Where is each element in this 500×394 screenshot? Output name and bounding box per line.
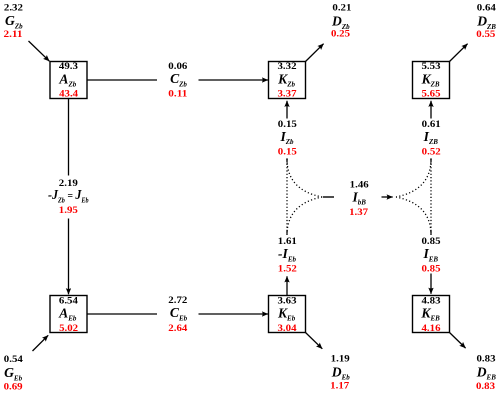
svg-text:3.04: 3.04 xyxy=(278,323,297,334)
svg-text:0.21: 0.21 xyxy=(332,3,351,14)
node D_ZB labels (0.64 / D_ZB / 0.55) xyxy=(476,3,496,41)
wire arrow after I_bB xyxy=(382,196,393,198)
wire arrow G_Eb into A_Eb xyxy=(33,335,49,351)
svg-text:-JZb = JEb: -JZb = JEb xyxy=(48,187,89,204)
wire C_Zb left segment xyxy=(87,79,157,81)
node I_EB labels (0.85 / I_EB / 0.85) xyxy=(422,236,441,275)
svg-text:0.11: 0.11 xyxy=(168,88,187,99)
svg-text:1.95: 1.95 xyxy=(59,205,78,216)
svg-text:2.32: 2.32 xyxy=(4,3,23,14)
wire dash before I_bB xyxy=(323,196,334,198)
svg-text:1.37: 1.37 xyxy=(349,207,368,218)
svg-text:0.55: 0.55 xyxy=(476,29,495,40)
svg-text:4.16: 4.16 xyxy=(422,323,441,334)
wire arrow D_Eb out of K_Eb xyxy=(306,333,323,349)
wire arrow D_ZB out of K_ZB xyxy=(450,44,468,62)
svg-text:0.15: 0.15 xyxy=(278,146,297,157)
box K_Zb xyxy=(269,61,306,100)
node J labels (2.19 / -J_Zb = J_Eb / 1.95) xyxy=(48,178,89,216)
wire C_Zb right segment with arrow into K_Zb xyxy=(199,79,269,81)
left brace bottom dotted curve xyxy=(287,197,322,235)
box A_Zb xyxy=(50,61,87,100)
svg-text:GEb: GEb xyxy=(4,365,22,382)
wire arrow I_EB down into K_EB xyxy=(430,274,432,294)
svg-text:0.25: 0.25 xyxy=(331,29,350,40)
node C_Eb labels (2.72 / C_Eb / 2.64) xyxy=(168,295,187,334)
node C_Zb labels (0.06 / C_Zb / 0.11) xyxy=(168,61,187,100)
svg-text:0.83: 0.83 xyxy=(477,353,496,364)
node D_EB labels (0.83 / D_EB / 0.83) xyxy=(476,353,496,392)
wire C_Eb right segment with arrow into K_Eb xyxy=(199,313,269,315)
node D_Eb labels (1.19 / D_Eb / 1.17) xyxy=(330,353,350,391)
svg-text:1.52: 1.52 xyxy=(278,264,297,275)
svg-text:49.3: 49.3 xyxy=(59,61,78,72)
node -I_Eb labels (1.61 / -I_Eb / 1.52) xyxy=(278,236,297,275)
left brace top dotted curve xyxy=(287,159,322,197)
svg-text:0.83: 0.83 xyxy=(476,381,495,392)
svg-text:IZB: IZB xyxy=(423,129,439,146)
svg-text:43.4: 43.4 xyxy=(59,89,78,100)
node D_Zb labels (0.21 / D_Zb / 0.25) xyxy=(331,3,352,40)
svg-text:CEb: CEb xyxy=(170,305,188,322)
svg-text:0.85: 0.85 xyxy=(422,264,441,275)
svg-text:5.65: 5.65 xyxy=(422,89,441,100)
svg-text:GZb: GZb xyxy=(5,13,23,30)
svg-text:3.32: 3.32 xyxy=(278,61,297,72)
wire arrow D_EB out of K_EB xyxy=(450,333,466,349)
right brace bottom dotted curve xyxy=(396,197,431,235)
node G_Eb labels (0.54 / G_Eb / 0.69) xyxy=(4,354,23,393)
svg-text:2.64: 2.64 xyxy=(168,323,187,334)
svg-text:IEB: IEB xyxy=(422,246,438,263)
svg-text:5.53: 5.53 xyxy=(422,61,441,72)
wire arrow J into A_Eb xyxy=(68,219,70,295)
svg-text:0.54: 0.54 xyxy=(4,354,23,365)
right brace top dotted curve xyxy=(396,159,431,197)
node I_ZB labels (0.61 / I_ZB / 0.52) xyxy=(422,119,441,157)
wire arrow I_ZB into K_ZB bottom xyxy=(430,101,432,119)
wire arrow G_Zb into A_Zb xyxy=(29,41,50,61)
box K_Eb xyxy=(269,295,306,334)
box K_ZB xyxy=(413,61,450,100)
node G_Zb labels (2.32 / G_Zb / 2.11) xyxy=(4,3,24,41)
svg-text:1.19: 1.19 xyxy=(331,353,350,364)
box K_EB xyxy=(413,295,450,334)
svg-text:0.64: 0.64 xyxy=(477,3,496,14)
node I_Zb labels (0.15 / I_Zb / 0.15) xyxy=(278,119,297,157)
wire J vertical segment from A_Zb xyxy=(68,99,70,176)
svg-text:DEb: DEb xyxy=(331,364,350,381)
svg-text:0.69: 0.69 xyxy=(4,382,23,393)
svg-text:1.17: 1.17 xyxy=(330,381,349,392)
wire arrow D_Zb out of K_Zb xyxy=(306,44,324,62)
box A_Eb xyxy=(50,295,87,334)
svg-text:3.37: 3.37 xyxy=(278,89,297,100)
wire C_Eb left segment xyxy=(87,313,157,315)
wire arrow -I_Eb up out of K_Eb xyxy=(286,276,288,295)
right brace vertical dotted line xyxy=(430,158,432,234)
svg-text:DEB: DEB xyxy=(476,364,496,381)
svg-text:0.52: 0.52 xyxy=(422,146,441,157)
node I_bB labels (1.46 / I_bB / 1.37) xyxy=(349,179,369,218)
left brace vertical dotted line xyxy=(286,158,288,234)
wire arrow I_Zb into K_Zb bottom xyxy=(286,101,288,119)
svg-text:2.11: 2.11 xyxy=(4,29,23,40)
svg-text:CZb: CZb xyxy=(170,71,187,88)
svg-text:-IEb: -IEb xyxy=(278,246,296,263)
svg-text:IbB: IbB xyxy=(351,189,366,206)
svg-text:5.02: 5.02 xyxy=(59,323,78,334)
svg-text:IZb: IZb xyxy=(279,129,294,146)
